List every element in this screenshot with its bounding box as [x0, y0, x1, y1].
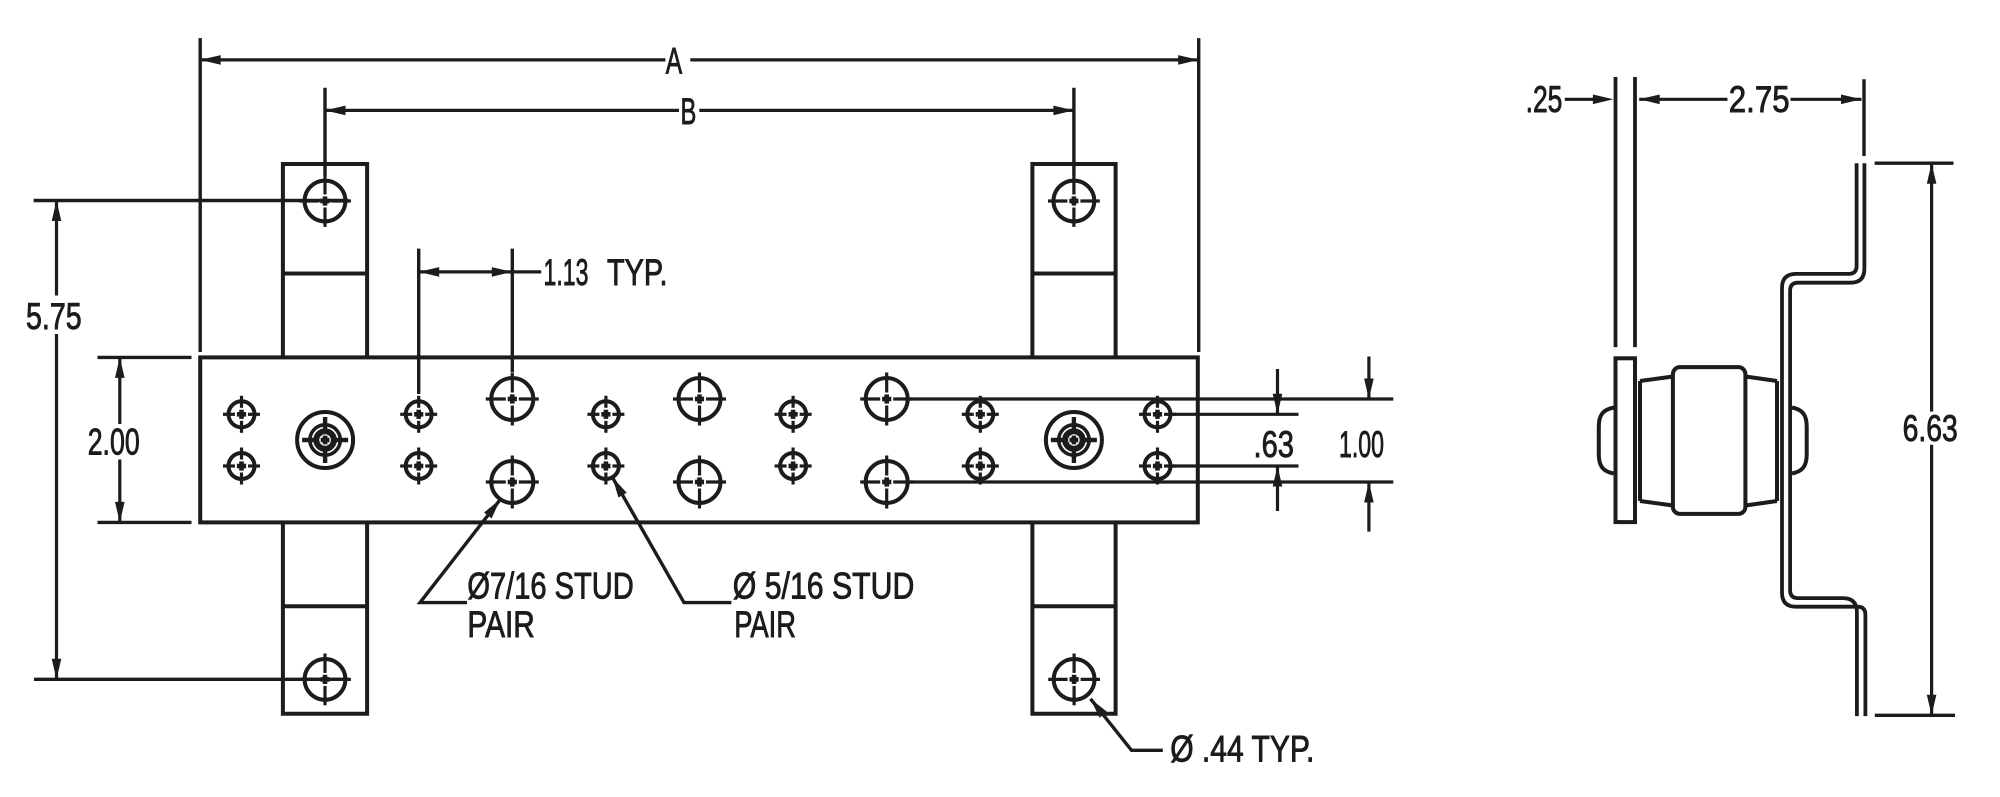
side view: washer cone left — [1638, 381, 1642, 501]
svg-text:Ø7/16 STUD: Ø7/16 STUD — [467, 566, 633, 607]
svg-text:B: B — [681, 91, 697, 132]
svg-text:PAIR: PAIR — [467, 604, 534, 645]
7/16 stud pair #2 bottom hole — [679, 461, 721, 503]
svg-text:A: A — [666, 41, 683, 82]
5/16 stud pair #4 bottom hole — [780, 453, 806, 479]
5/16 stud pair #2 top hole — [406, 401, 432, 427]
left mounting insulator hole (concentric) — [297, 412, 353, 468]
7/16 stud pair #3 top hole — [866, 378, 908, 420]
dim 5.75 extension line bottom — [34, 678, 349, 681]
bracket hole top-right (Ø.44) — [1054, 181, 1095, 222]
side view: washer cone right — [1775, 381, 1779, 501]
bottom-left mounting bracket — [283, 522, 367, 713]
leader line 7/16 stud pair — [420, 499, 500, 602]
svg-text:Ø 5/16 STUD: Ø 5/16 STUD — [733, 566, 915, 607]
svg-text:1.13: 1.13 — [544, 252, 589, 293]
5/16 stud pair #2 bottom hole — [406, 453, 432, 479]
svg-text:TYP.: TYP. — [607, 252, 668, 293]
dim 1.00 reference line bottom — [910, 480, 1393, 483]
side view: bar upper edge (thin plate) — [1614, 77, 1618, 347]
5/16 stud pair #4 top hole — [780, 401, 806, 427]
ground bar body (front view) — [200, 357, 1198, 522]
bracket hole top-left (Ø.44) — [305, 181, 346, 222]
dim 5.75 line + arrows — [55, 201, 58, 296]
svg-text:1.00: 1.00 — [1339, 424, 1384, 465]
5/16 stud pair #3 bottom hole — [593, 453, 619, 479]
dim 2.75 line + arrows — [1639, 95, 1660, 105]
dim 6.63 extension line top — [1875, 161, 1954, 164]
leader line Ø.44 bracket hole — [1091, 699, 1163, 751]
svg-text:6.63: 6.63 — [1903, 408, 1958, 449]
7/16 stud pair #1 bottom hole — [491, 461, 533, 503]
bottom-right mounting bracket — [1032, 522, 1115, 713]
dim 1.13 line + arrows — [419, 270, 513, 273]
svg-text:.25: .25 — [1526, 79, 1563, 120]
7/16 stud pair #1 top hole — [491, 378, 533, 420]
dimension B extension line left — [323, 88, 326, 176]
side view: Z-bracket face B — [1790, 163, 1864, 716]
dim 2.00 extension line bottom — [98, 521, 192, 524]
dimension A line + arrows — [200, 58, 665, 61]
top-right mounting bracket — [1032, 164, 1115, 357]
5/16 stud pair #3 top hole — [593, 401, 619, 427]
side view: stud head right — [1792, 408, 1807, 474]
svg-text:Ø .44 TYP.: Ø .44 TYP. — [1170, 729, 1314, 770]
dim 6.63 extension line bottom — [1875, 714, 1955, 717]
dim 2.00 line + arrows — [118, 357, 121, 424]
bracket hole bottom-right (Ø.44) — [1054, 659, 1095, 700]
5/16 stud pair #5 top hole — [967, 401, 993, 427]
dim 6.63 line + arrows — [1930, 163, 1933, 411]
5/16 stud pair #5 bottom hole — [967, 453, 993, 479]
7/16 stud pair #3 bottom hole — [866, 461, 908, 503]
svg-text:2.75: 2.75 — [1729, 79, 1790, 120]
5/16 stud pair #6 top hole — [1145, 401, 1171, 427]
side view: stud head left — [1599, 408, 1614, 474]
7/16 stud pair #2 top hole — [679, 378, 721, 420]
dim .63 reference line bottom — [1172, 464, 1299, 467]
leader line 5/16 stud pair — [612, 477, 731, 602]
dim 2.00 extension line top — [98, 356, 192, 359]
side view: Z-bracket face A — [1782, 163, 1865, 716]
side view: bar cross-section — [1616, 358, 1636, 522]
right mounting insulator hole (concentric) — [1046, 412, 1102, 468]
top-left mounting bracket — [283, 164, 367, 357]
5/16 stud pair #1 top hole — [229, 401, 255, 427]
dimension A extension line left — [198, 38, 201, 352]
dim .63 line + arrows — [1276, 369, 1279, 414]
dim 5.75 extension line top — [34, 199, 349, 202]
svg-text:PAIR: PAIR — [734, 604, 796, 645]
dim 1.13 extension line left — [417, 249, 420, 394]
dim 1.00 line + arrows — [1367, 357, 1370, 400]
dimension B line + arrows — [325, 109, 679, 112]
dim .63 reference line top — [1172, 413, 1299, 416]
svg-text:.63: .63 — [1254, 424, 1295, 465]
svg-text:5.75: 5.75 — [26, 296, 82, 337]
svg-text:2.00: 2.00 — [88, 422, 140, 463]
dim 1.00 reference line top — [910, 397, 1393, 400]
5/16 stud pair #1 bottom hole — [229, 453, 255, 479]
dim 2.75 extension line — [1862, 79, 1865, 156]
side view: insulator barrel — [1673, 367, 1746, 514]
dim 1.13 extension line right — [511, 249, 514, 372]
5/16 stud pair #6 bottom hole — [1145, 453, 1171, 479]
dimension A extension line right — [1197, 38, 1200, 352]
dimension B extension line right — [1072, 88, 1075, 176]
bracket hole bottom-left (Ø.44) — [305, 659, 346, 700]
